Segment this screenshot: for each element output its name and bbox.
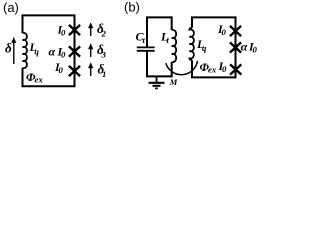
svg-text:α: α: [49, 45, 56, 59]
inductor L1 coil (b): [172, 30, 177, 62]
phase arrow delta (a): [13, 41, 15, 64]
svg-text:3: 3: [101, 50, 107, 60]
svg-text:0: 0: [59, 65, 64, 75]
josephson junction X top (b): [230, 26, 241, 36]
inductor Lq coil (b): [189, 27, 194, 62]
svg-text:2: 2: [101, 29, 107, 39]
qubit loop (b) wire: [192, 17, 236, 77]
ground: [156, 76, 158, 82]
inductor Lq coil (a): [23, 33, 28, 68]
qubit loop (a) wire: [23, 15, 75, 86]
svg-text:0: 0: [61, 50, 66, 60]
svg-text:M: M: [169, 77, 178, 87]
capacitor Ct (b): [137, 46, 155, 48]
svg-text:ex: ex: [208, 65, 217, 75]
mutual inductance arc M: [166, 61, 198, 75]
LC loop (b) wire: [147, 17, 172, 47]
arrow delta1 (a): [90, 67, 92, 77]
josephson junction X middle (b): [230, 42, 241, 52]
svg-text:q: q: [202, 43, 207, 53]
arrow delta3 (a): [90, 48, 92, 58]
svg-text:0: 0: [61, 28, 66, 38]
josephson junction X bottom (b): [230, 64, 241, 74]
svg-text:1: 1: [102, 69, 106, 79]
svg-text:(b): (b): [124, 0, 140, 15]
svg-text:ex: ex: [35, 75, 44, 85]
svg-text:0: 0: [222, 27, 227, 37]
svg-text:0: 0: [253, 44, 258, 54]
svg-text:(a): (a): [3, 0, 19, 15]
josephson junction X bottom (a): [69, 66, 80, 76]
svg-text:q: q: [35, 47, 40, 57]
svg-text:0: 0: [222, 64, 227, 74]
josephson junction X middle (a): [69, 46, 80, 56]
josephson junction X top (a): [69, 25, 80, 35]
svg-text:α: α: [241, 39, 248, 53]
arrow delta2 (a): [90, 27, 92, 37]
svg-text:δ: δ: [5, 41, 12, 56]
